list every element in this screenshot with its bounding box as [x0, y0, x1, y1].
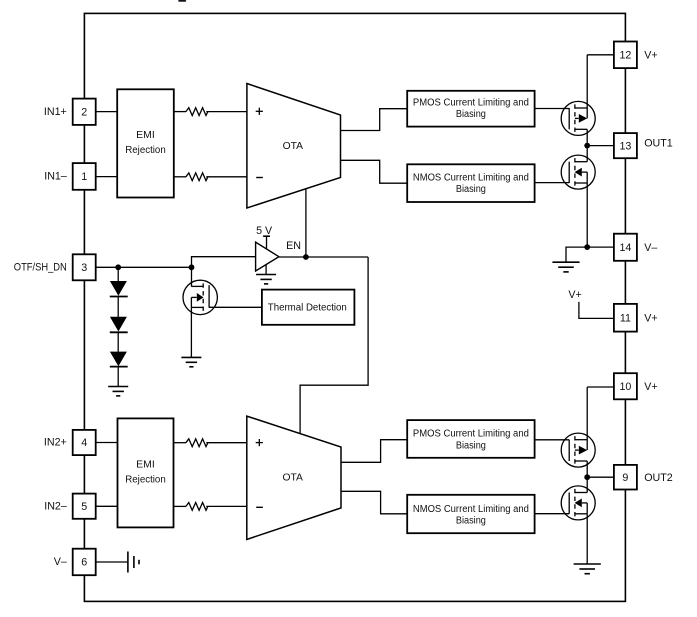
svg-text:Biasing: Biasing	[456, 515, 486, 526]
wire tap up to buffer input	[192, 257, 256, 268]
svg-text:5: 5	[81, 501, 87, 513]
title text descender fragment	[178, 0, 186, 2]
wire D1 to D2	[117, 297, 119, 318]
op-amp OTA1	[247, 84, 341, 209]
svg-text:OTA: OTA	[283, 141, 304, 152]
transistor Q5 shutdown	[183, 280, 217, 314]
PMOS current limiting block ch1	[407, 91, 534, 127]
wire node down to Q4	[586, 477, 588, 492]
node OUT2 junction	[584, 474, 590, 480]
wire shutdown drain	[191, 267, 193, 286]
V- rail symbol	[127, 552, 129, 573]
OTA2 minus input mark	[256, 506, 263, 508]
pin 1 box	[73, 163, 96, 190]
node EN junction	[303, 254, 309, 260]
wire Q4 source to ground	[586, 514, 588, 564]
wire shutdown source to ground	[190, 307, 192, 357]
svg-text:Biasing: Biasing	[456, 440, 486, 451]
pin 13 box	[614, 133, 637, 158]
pin 12 box	[614, 42, 637, 69]
node V- junction ch1	[584, 244, 590, 250]
svg-text:V+: V+	[644, 49, 657, 61]
svg-text:OUT2: OUT2	[644, 472, 673, 484]
wire resistor to OTA2 +	[206, 442, 247, 444]
node diode chain tap	[115, 264, 121, 270]
wire Q2 source down to V- node	[586, 183, 588, 247]
wire PMOS block to Q3 gate	[535, 439, 570, 441]
wire OTA1 to NMOS block ch1	[341, 160, 408, 183]
PMOS current limiting block ch2	[407, 420, 534, 458]
svg-text:Rejection: Rejection	[125, 475, 166, 486]
wire OTA2 to NMOS block ch2	[341, 491, 407, 514]
wire V+ to pin11	[579, 302, 614, 319]
wire node to pin13	[587, 145, 614, 147]
NMOS current limiting block ch2	[407, 495, 534, 533]
wire resistor to OTA1 -	[206, 176, 247, 178]
wire EN up to OTA1	[305, 189, 307, 257]
ground diode chain	[108, 387, 128, 396]
svg-text:EMI: EMI	[136, 459, 155, 470]
OTA2 plus input mark	[256, 442, 263, 444]
resistor R2	[186, 173, 208, 181]
wire resistor to OTA2 -	[206, 505, 247, 507]
svg-text:V+: V+	[644, 381, 657, 393]
svg-text:3: 3	[81, 262, 87, 274]
OTA1 minus input mark	[256, 177, 263, 179]
svg-text:NMOS Current Limiting and: NMOS Current Limiting and	[413, 504, 529, 515]
pin 10 box	[614, 373, 637, 399]
wire pin6 V-	[95, 561, 128, 563]
svg-text:OTA: OTA	[282, 472, 303, 483]
wire D2 to D3	[117, 332, 119, 352]
svg-text:9: 9	[622, 472, 628, 484]
wire diode chain top	[117, 267, 119, 281]
diode D2	[110, 317, 127, 332]
svg-text:6: 6	[81, 557, 87, 569]
svg-text:1: 1	[81, 171, 87, 183]
wire EN to OTA2	[300, 257, 368, 434]
wire pin12 to V+ rail ch1	[587, 54, 614, 56]
svg-text:V+: V+	[644, 312, 657, 324]
transistor Q3 PMOS ch2	[561, 433, 595, 467]
wire resistor to OTA1 +	[206, 111, 247, 113]
resistor R4	[186, 503, 208, 511]
wire IN1+ pin2 to EMI	[96, 111, 118, 113]
wire IN2- pin5 to EMI	[96, 505, 118, 507]
EMI rejection block U1	[117, 89, 174, 197]
svg-text:PMOS Current Limiting and: PMOS Current Limiting and	[413, 98, 529, 109]
svg-text:12: 12	[619, 50, 631, 62]
wire thermal detection to Q5 gate	[209, 306, 262, 308]
svg-text:PMOS Current Limiting and: PMOS Current Limiting and	[413, 429, 529, 440]
power 5V bar	[263, 235, 270, 237]
node OUT1 junction	[584, 143, 590, 149]
ground ch1 output stage	[552, 262, 579, 272]
svg-text:EN: EN	[286, 240, 301, 252]
pin 4 box	[73, 430, 96, 455]
wire PMOS block to Q1 gate	[535, 108, 570, 110]
pin 6 box	[73, 549, 96, 576]
svg-text:V–: V–	[644, 242, 657, 254]
buffer U2 enable	[256, 242, 279, 271]
svg-text:IN1–: IN1–	[44, 171, 67, 183]
transistor Q2 NMOS ch1	[561, 155, 595, 189]
svg-text:Biasing: Biasing	[456, 184, 486, 195]
svg-text:OTF/SH_DN: OTF/SH_DN	[14, 262, 67, 274]
wire Q3 drain to OUT2 node	[586, 461, 588, 477]
node shutdown tap	[189, 264, 195, 270]
wire NMOS block to Q2 gate	[535, 182, 570, 184]
wire node to pin14	[587, 246, 614, 248]
pin 2 box	[73, 99, 96, 125]
wire node to pin9	[587, 476, 614, 478]
svg-text:V–: V–	[54, 556, 67, 568]
wire pin3 OTF/SH_DN	[96, 266, 192, 268]
wire pin10 to V+ rail ch2	[587, 386, 614, 388]
wire EMI to resistor ch2-	[174, 505, 187, 507]
wire OTA2 to PMOS block ch2	[341, 440, 407, 463]
wire IN2+ pin4 to EMI	[96, 442, 118, 444]
diode D1	[110, 281, 127, 296]
resistor R1	[186, 108, 208, 116]
wire IN1- pin1 to EMI	[96, 176, 118, 178]
diode D3	[110, 352, 127, 367]
pin 3 box	[73, 254, 96, 280]
svg-text:Biasing: Biasing	[456, 109, 486, 120]
wire V+ rail down to Q3	[586, 387, 588, 450]
wire D3 to ground	[117, 367, 119, 387]
svg-text:EMI: EMI	[136, 130, 155, 141]
ground ch2 output stage	[574, 564, 601, 574]
resistor R3	[186, 439, 208, 447]
transistor Q1 PMOS ch1	[561, 101, 595, 135]
ground shutdown	[181, 357, 201, 366]
wire EN net	[279, 256, 368, 258]
wire NMOS block to Q4 gate	[535, 513, 570, 515]
pin 14 box	[614, 234, 637, 261]
svg-text:OUT1: OUT1	[644, 138, 673, 150]
OTA1 plus input mark	[256, 110, 263, 112]
pin 5 box	[73, 494, 96, 519]
svg-text:11: 11	[620, 312, 631, 324]
svg-text:Thermal Detection: Thermal Detection	[268, 303, 347, 314]
NMOS current limiting block ch1	[407, 164, 534, 202]
svg-text:V+: V+	[568, 289, 581, 301]
svg-text:10: 10	[619, 381, 631, 393]
pin 9 box	[614, 465, 637, 490]
wire V+ rail down to Q1	[586, 55, 588, 119]
IC outer border	[84, 13, 625, 601]
svg-text:2: 2	[81, 107, 87, 119]
svg-text:Rejection: Rejection	[125, 145, 166, 156]
thermal detection block	[262, 290, 355, 325]
pin 11 box	[614, 304, 637, 332]
svg-text:IN2–: IN2–	[44, 500, 67, 512]
svg-text:4: 4	[81, 437, 87, 449]
svg-text:NMOS Current Limiting and: NMOS Current Limiting and	[413, 172, 529, 183]
svg-text:14: 14	[619, 242, 631, 254]
wire node to ground ch1	[566, 247, 587, 262]
wire EMI to resistor ch1+	[174, 111, 186, 113]
svg-text:IN2+: IN2+	[44, 437, 67, 449]
buffer ground stem	[265, 265, 267, 275]
svg-text:IN1+: IN1+	[44, 106, 67, 118]
wire Q1 drain to OUT1 node	[586, 129, 588, 161]
wire EMI to resistor ch1-	[174, 176, 186, 178]
wire EMI to resistor ch2+	[174, 442, 187, 444]
wire OTA1 to PMOS block ch1	[341, 109, 408, 131]
ground buffer	[256, 275, 276, 284]
op-amp OTA2	[247, 416, 341, 539]
transistor Q4 NMOS ch2	[561, 486, 595, 520]
svg-text:13: 13	[619, 140, 631, 152]
EMI rejection block U3	[118, 418, 174, 527]
